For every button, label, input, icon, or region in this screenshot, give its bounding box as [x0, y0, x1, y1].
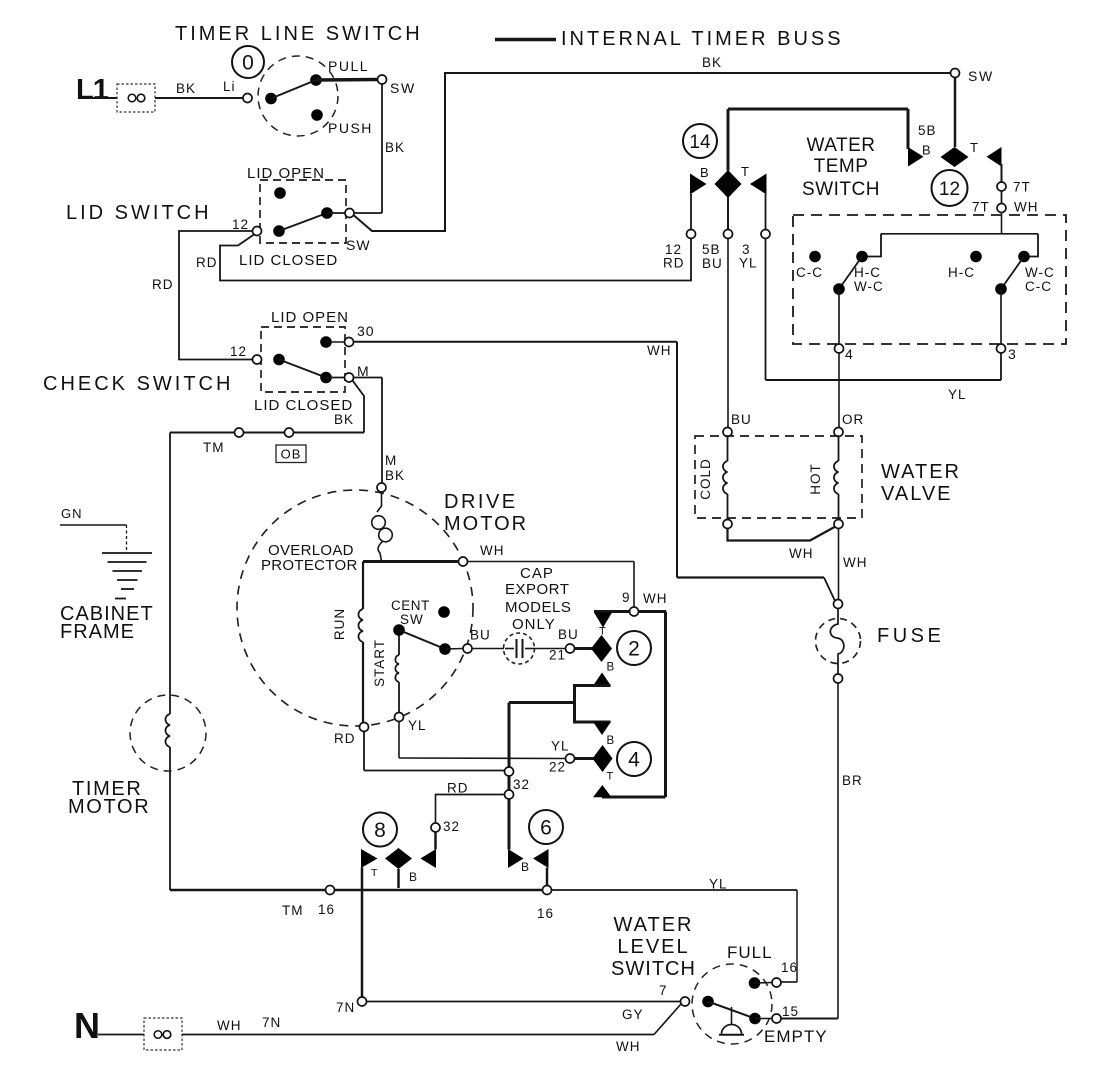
svg-text:WATER: WATER — [614, 914, 694, 936]
svg-text:B: B — [521, 860, 529, 874]
svg-text:21: 21 — [549, 648, 566, 663]
svg-text:LID OPEN: LID OPEN — [271, 309, 349, 326]
svg-text:W-C: W-C — [1025, 265, 1055, 280]
svg-text:MOTOR: MOTOR — [444, 513, 528, 535]
svg-text:T: T — [741, 164, 749, 179]
svg-text:FULL: FULL — [727, 943, 773, 962]
svg-text:PUSH: PUSH — [328, 120, 373, 136]
svg-text:7T: 7T — [1013, 180, 1031, 195]
svg-text:H-C: H-C — [854, 265, 881, 280]
svg-text:7: 7 — [659, 983, 668, 998]
svg-text:Li: Li — [223, 79, 236, 94]
svg-text:SWITCH: SWITCH — [611, 958, 696, 980]
svg-text:4: 4 — [845, 346, 854, 362]
svg-text:OB: OB — [281, 447, 302, 462]
svg-text:B: B — [607, 735, 615, 747]
svg-text:SW: SW — [968, 68, 994, 84]
svg-text:12: 12 — [230, 344, 247, 359]
svg-text:GY: GY — [622, 1007, 644, 1022]
svg-text:EMPTY: EMPTY — [764, 1027, 828, 1046]
svg-text:T: T — [371, 867, 378, 879]
svg-text:SW: SW — [390, 80, 416, 96]
svg-text:RD: RD — [196, 255, 218, 270]
svg-text:9: 9 — [622, 590, 631, 605]
svg-text:VALVE: VALVE — [881, 483, 953, 505]
svg-text:16: 16 — [781, 960, 798, 975]
svg-text:T: T — [599, 626, 606, 638]
svg-text:B: B — [607, 662, 615, 674]
svg-text:PULL: PULL — [328, 58, 369, 74]
svg-text:TM: TM — [203, 440, 225, 455]
svg-text:RUN: RUN — [332, 608, 347, 640]
svg-text:LID CLOSED: LID CLOSED — [239, 252, 338, 269]
svg-text:C-C: C-C — [796, 265, 823, 280]
svg-text:LEVEL: LEVEL — [617, 936, 689, 958]
svg-text:CHECK SWITCH: CHECK SWITCH — [43, 373, 233, 395]
svg-text:W-C: W-C — [854, 279, 884, 294]
svg-text:SWITCH: SWITCH — [802, 179, 880, 200]
svg-text:14: 14 — [689, 132, 711, 153]
svg-text:YL: YL — [709, 877, 728, 892]
svg-text:WH: WH — [217, 1018, 242, 1033]
svg-text:TIMER LINE SWITCH: TIMER LINE SWITCH — [175, 23, 423, 45]
svg-text:CAP: CAP — [520, 565, 554, 582]
svg-text:FUSE: FUSE — [877, 625, 944, 647]
svg-text:WATER: WATER — [881, 461, 961, 483]
svg-text:WH: WH — [1014, 200, 1039, 215]
svg-text:32: 32 — [513, 777, 530, 792]
svg-text:N: N — [74, 1005, 100, 1046]
svg-text:RD: RD — [334, 731, 356, 746]
svg-text:BU: BU — [702, 256, 723, 271]
svg-text:WH: WH — [843, 555, 868, 570]
svg-text:6: 6 — [540, 817, 552, 840]
svg-text:BK: BK — [385, 140, 405, 155]
svg-text:B: B — [922, 143, 931, 158]
svg-text:12: 12 — [939, 179, 960, 200]
svg-text:4: 4 — [628, 749, 640, 772]
svg-text:PROTECTOR: PROTECTOR — [261, 557, 358, 574]
svg-text:0: 0 — [242, 52, 254, 75]
svg-text:BU: BU — [558, 627, 579, 642]
svg-text:BR: BR — [842, 773, 863, 788]
svg-text:RD: RD — [663, 256, 685, 271]
svg-text:INTERNAL TIMER BUSS: INTERNAL TIMER BUSS — [561, 28, 844, 50]
svg-text:LID SWITCH: LID SWITCH — [66, 202, 212, 224]
svg-text:EXPORT: EXPORT — [505, 581, 569, 598]
svg-text:WATER: WATER — [807, 135, 876, 156]
svg-text:START: START — [372, 639, 387, 687]
svg-text:B: B — [409, 870, 417, 884]
svg-text:8: 8 — [374, 819, 386, 842]
svg-text:COLD: COLD — [698, 458, 713, 500]
svg-text:RD: RD — [152, 277, 174, 292]
svg-text:BK: BK — [334, 412, 354, 427]
svg-text:WH: WH — [616, 1039, 641, 1054]
svg-text:T: T — [607, 771, 614, 783]
svg-text:HOT: HOT — [808, 463, 823, 495]
svg-text:5B: 5B — [702, 242, 721, 257]
svg-text:BK: BK — [385, 468, 405, 483]
svg-text:7N: 7N — [262, 1015, 281, 1030]
svg-text:5B: 5B — [918, 123, 937, 138]
svg-text:DRIVE: DRIVE — [444, 491, 518, 513]
svg-text:WH: WH — [647, 343, 672, 358]
svg-text:BK: BK — [176, 81, 196, 96]
svg-text:WH: WH — [480, 543, 505, 558]
svg-text:YL: YL — [551, 739, 570, 754]
svg-text:7T: 7T — [972, 200, 990, 215]
svg-text:ONLY: ONLY — [512, 616, 556, 633]
svg-text:T: T — [970, 140, 978, 155]
svg-text:BU: BU — [470, 628, 491, 643]
svg-text:22: 22 — [549, 760, 566, 775]
svg-text:YL: YL — [408, 718, 427, 733]
svg-text:16: 16 — [318, 902, 335, 917]
svg-text:3: 3 — [1008, 346, 1017, 362]
svg-text:FRAME: FRAME — [60, 621, 135, 643]
svg-text:SW: SW — [346, 237, 371, 253]
svg-text:SW: SW — [400, 612, 424, 627]
svg-text:RD: RD — [447, 781, 469, 796]
svg-text:M: M — [385, 453, 397, 468]
svg-text:WH: WH — [643, 591, 668, 606]
svg-text:YL: YL — [739, 256, 758, 271]
svg-text:30: 30 — [357, 323, 375, 339]
svg-text:15: 15 — [782, 1004, 799, 1019]
svg-text:H-C: H-C — [948, 265, 975, 280]
svg-text:TM: TM — [282, 903, 304, 918]
svg-text:GN: GN — [61, 506, 83, 521]
svg-text:MOTOR: MOTOR — [68, 796, 150, 818]
svg-text:BK: BK — [702, 55, 722, 70]
svg-text:YL: YL — [948, 387, 967, 402]
svg-text:7N: 7N — [336, 1000, 355, 1015]
svg-text:16: 16 — [537, 906, 554, 921]
svg-text:MODELS: MODELS — [505, 599, 571, 616]
svg-text:B: B — [700, 165, 709, 180]
svg-text:L1: L1 — [76, 74, 109, 106]
svg-text:CENT: CENT — [391, 598, 430, 613]
svg-text:LID OPEN: LID OPEN — [247, 165, 325, 182]
svg-text:32: 32 — [443, 819, 460, 834]
svg-text:TEMP: TEMP — [814, 156, 869, 177]
svg-text:OR: OR — [842, 412, 864, 427]
svg-text:12: 12 — [232, 217, 249, 232]
svg-text:C-C: C-C — [1025, 279, 1052, 294]
svg-text:2: 2 — [628, 638, 640, 661]
svg-text:BU: BU — [731, 412, 752, 427]
svg-text:WH: WH — [789, 546, 814, 561]
